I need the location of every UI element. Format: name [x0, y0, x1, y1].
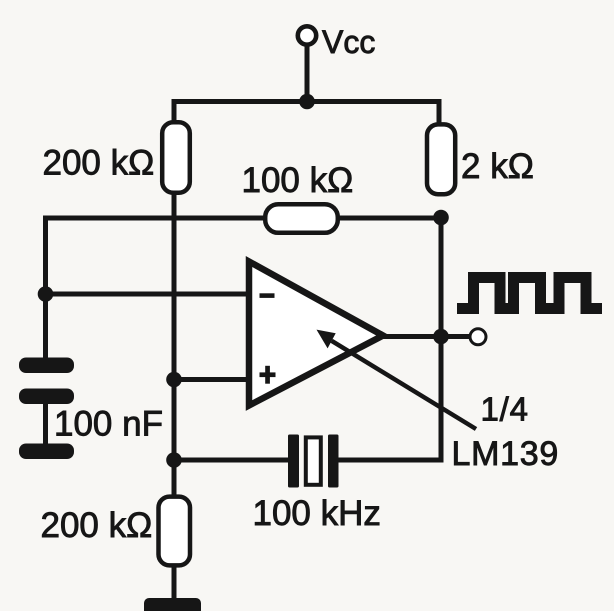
svg-text:Vcc: Vcc	[322, 24, 375, 60]
svg-text:100 nF: 100 nF	[54, 405, 163, 444]
svg-text:200 kΩ: 200 kΩ	[41, 506, 153, 545]
svg-text:200 kΩ: 200 kΩ	[43, 144, 155, 183]
svg-text:2 kΩ: 2 kΩ	[461, 147, 534, 186]
svg-text:100 kHz: 100 kHz	[253, 494, 381, 533]
svg-text:LM139: LM139	[452, 435, 559, 473]
svg-text:100 kΩ: 100 kΩ	[242, 161, 354, 200]
svg-text:1/4: 1/4	[481, 391, 529, 428]
